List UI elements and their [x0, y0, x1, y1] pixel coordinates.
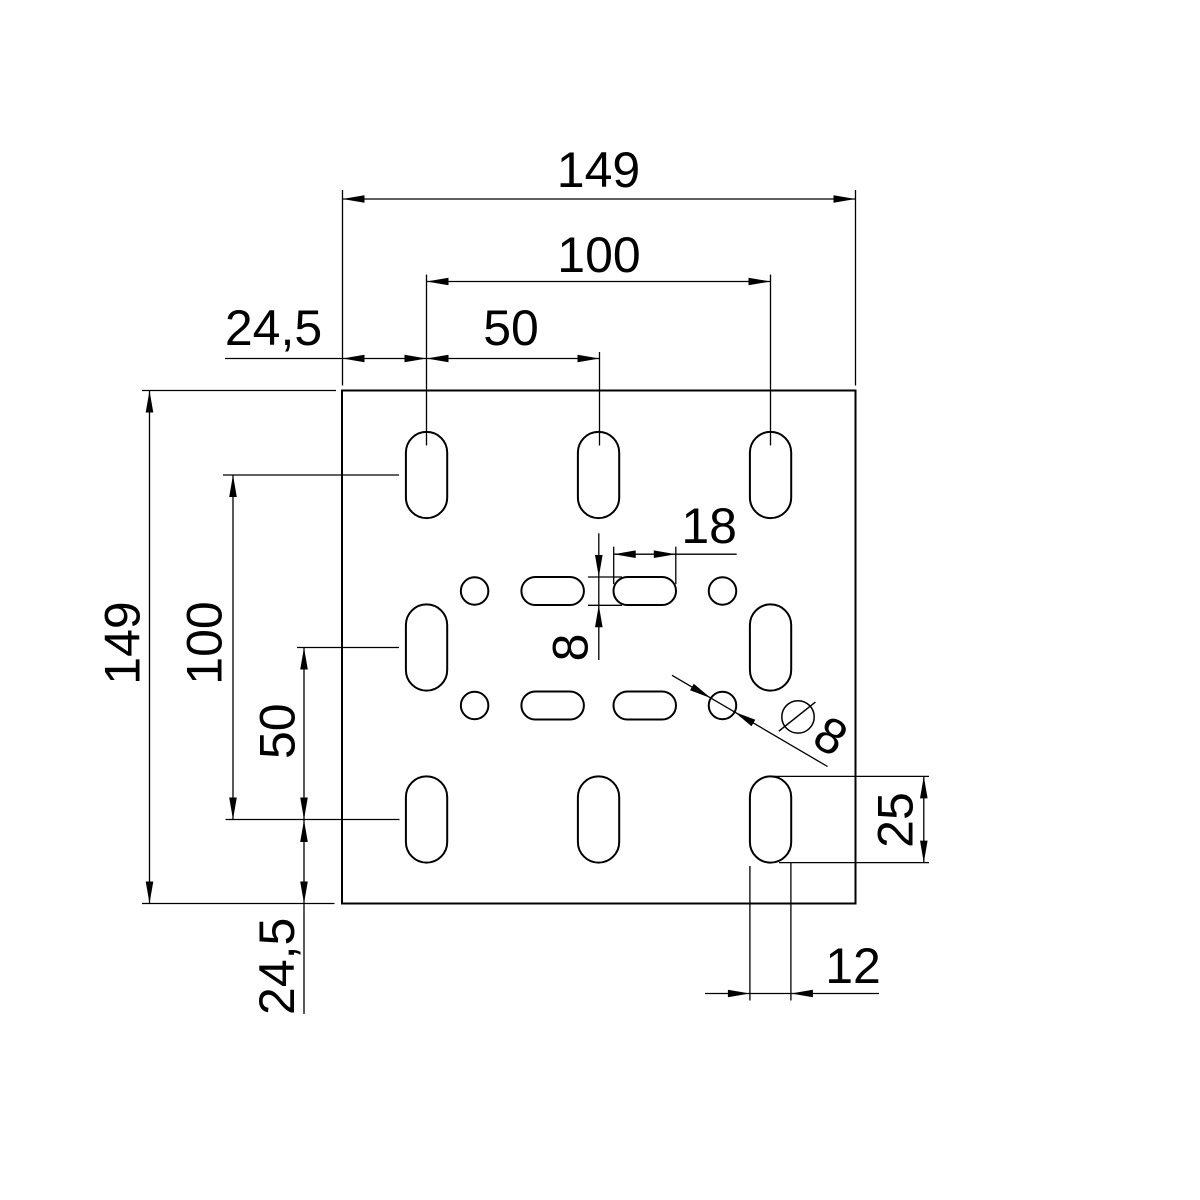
dim 149 top: left extension line: [342, 190, 344, 386]
plate outline: [342, 391, 856, 904]
dim 149 top: left arrow: [343, 195, 365, 203]
svg-text:25: 25: [868, 792, 924, 848]
slot row1 col1 (12x25): [406, 432, 447, 518]
dim 8: bottom extension tick: [588, 604, 622, 606]
dim 50 top: left arrow: [427, 355, 449, 363]
dim 100 left: top arrow: [229, 475, 237, 497]
dim 12: right extension line: [790, 863, 792, 1001]
dim 100 top: left extension line: [426, 275, 428, 446]
svg-text:100: 100: [177, 601, 233, 684]
dim d8: diameter symbol circle: [782, 701, 814, 733]
dim 50 left: bottom arrow: [300, 798, 308, 820]
hole d8 upper-left: [461, 577, 489, 605]
dim 149 left: dimension line: [149, 391, 151, 904]
dim 100 top: left arrow: [427, 278, 449, 286]
dim 149 top: right extension line: [855, 190, 857, 386]
hole d8 upper-right: [709, 577, 737, 605]
slot row3 col3 (12x25): [750, 776, 791, 862]
dim 50/24,5 left: dimension line: [303, 648, 305, 1015]
dim d8: diameter symbol slash: [779, 702, 816, 731]
slot row3 col1 (12x25): [406, 776, 447, 862]
dim 149 top: right arrow: [834, 195, 856, 203]
dim d8: leader line: [672, 675, 828, 766]
dim 100 left: dimension line: [232, 475, 234, 820]
small slot 18x8 upper-right: [614, 577, 677, 605]
dim 100 left: bottom arrow: [229, 798, 237, 820]
dim 12: left extension line: [749, 866, 751, 1001]
dim d8: lower-right arrow (pointing at circle): [734, 712, 755, 726]
dim 25: top arrow: [920, 776, 928, 798]
dim 50 left: top arrow: [300, 648, 308, 670]
dim 100 left: top extension line: [223, 474, 399, 476]
small slot 18x8 upper-left: [521, 577, 584, 605]
svg-text:149: 149: [557, 142, 640, 198]
dim 25: top extension line: [771, 775, 930, 777]
svg-text:18: 18: [681, 498, 737, 554]
dim 18: right arrow: [654, 550, 676, 558]
dim 24,5 top: right arrow: [405, 355, 427, 363]
dim 24,5 left: bottom arrow: [300, 882, 308, 904]
dim 100 top: dimension line: [427, 281, 771, 283]
dim 24,5/50 top: dimension line: [225, 358, 600, 360]
dim 100 top: right extension line: [770, 275, 772, 446]
svg-text:24,5: 24,5: [249, 918, 305, 1015]
dim 24,5 left: top arrow: [300, 820, 308, 842]
dim 8: dimension line: [598, 533, 600, 660]
dim 149 left: bottom extension line: [142, 903, 335, 905]
dim 25: dimension line: [923, 776, 925, 862]
dim 149 left: top extension line: [142, 390, 336, 392]
dim 12: left arrow (outside, pointing right): [728, 990, 750, 998]
dim d8: upper-left arrow (pointing at circle): [690, 684, 711, 698]
dim 50 left: top extension line (row2): [297, 647, 399, 649]
slot row2 col1 (12x25): [406, 604, 447, 690]
slot row1 col2 (12x25): [578, 432, 619, 518]
dim 25: bottom extension line: [779, 862, 929, 864]
dim 18: right extension line: [675, 547, 677, 585]
dim 12: dimension line: [705, 993, 879, 995]
dim 24,5 top: left arrow: [343, 355, 365, 363]
slot row1 col3 (12x25): [750, 432, 791, 518]
hole d8 lower-left: [461, 692, 489, 720]
dim 149 top: dimension line: [343, 198, 856, 200]
svg-text:50: 50: [250, 703, 306, 759]
hole d8 lower-right: [709, 692, 737, 720]
dim 100 left: bottom extension line (row3): [226, 819, 400, 821]
dim 18: left extension line: [613, 547, 615, 585]
svg-text:12: 12: [825, 938, 881, 994]
dim 8: bottom arrow (outside, pointing up): [595, 605, 603, 627]
dim 18: dimension line: [614, 553, 737, 555]
svg-text:50: 50: [483, 300, 539, 356]
dim 149 left: bottom arrow: [146, 882, 154, 904]
svg-text:8: 8: [542, 634, 598, 662]
svg-text:100: 100: [557, 227, 640, 283]
dim 8: top arrow (outside, pointing down): [595, 555, 603, 577]
dim 50 top: right arrow: [578, 355, 600, 363]
dim 149 left: top arrow: [146, 391, 154, 413]
svg-text:149: 149: [94, 601, 150, 684]
slot row2 col3 (12x25): [750, 604, 791, 690]
dim 50 top: right extension line: [599, 352, 601, 446]
dim 8: top extension tick: [588, 576, 622, 578]
dim 100 top: right arrow: [749, 278, 771, 286]
dim 18: left arrow: [614, 550, 636, 558]
dim 12: right arrow (outside, pointing left): [791, 990, 813, 998]
slot row3 col2 (12x25): [578, 776, 619, 862]
svg-text:24,5: 24,5: [225, 300, 322, 356]
small slot 18x8 lower-left: [521, 692, 584, 720]
small slot 18x8 lower-right: [614, 692, 677, 720]
dim 25: bottom arrow: [920, 841, 928, 863]
